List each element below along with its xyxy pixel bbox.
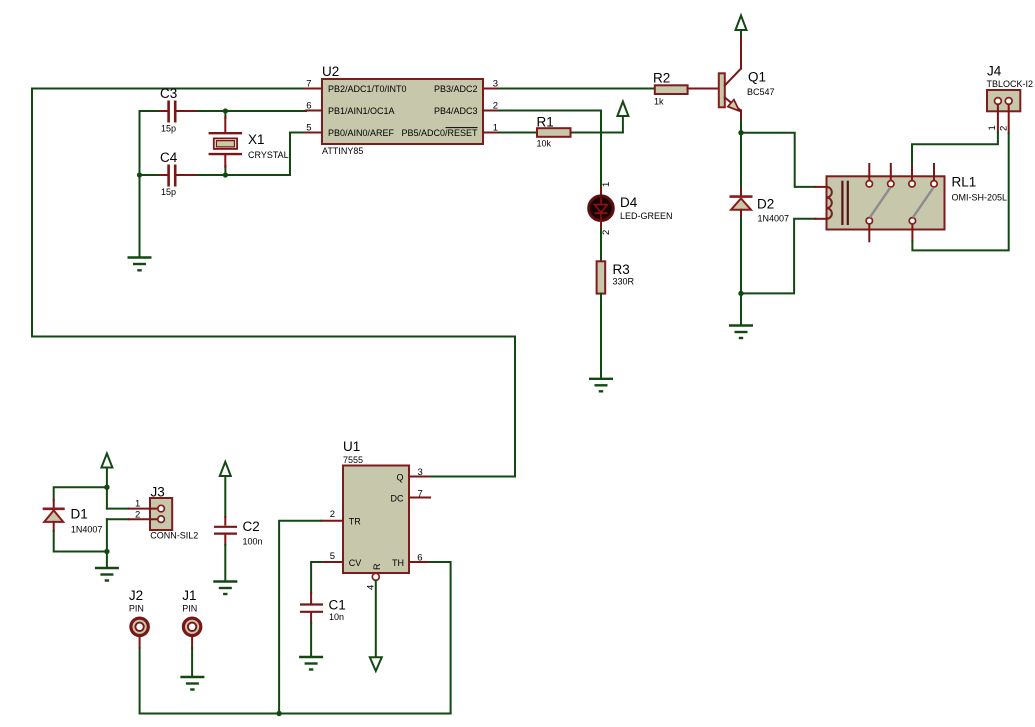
svg-text:PIN: PIN [129,603,144,613]
svg-text:PB5/ADC0/RESET: PB5/ADC0/RESET [401,128,478,138]
svg-text:5: 5 [330,551,335,562]
wire VCC top rail to U2 pin7 [32,89,515,477]
svg-text:LED-GREEN: LED-GREEN [620,211,673,221]
svg-text:PB1/AIN1/OC1A: PB1/AIN1/OC1A [328,106,395,116]
power arrow at J3/D1 [101,454,112,509]
wire C4 net [140,174,161,176]
svg-text:2: 2 [999,126,1010,131]
U2 pin 5 stub [306,132,322,134]
relay coil pin top [815,186,827,188]
svg-text:2: 2 [135,510,140,521]
relay coil pin bottom [815,218,827,220]
wire C3 right to U2 pin6 [195,110,306,112]
J1 pin stub [191,637,193,648]
wire junction to relay coil top [741,133,815,187]
svg-text:CV: CV [349,558,362,568]
svg-text:2: 2 [330,509,335,520]
wire D2 to bottom junction [740,218,742,293]
node D1 top junction [104,485,109,490]
relay top pin stubs [869,164,934,181]
wire J4 pin1 to relay contact [912,133,998,165]
svg-text:J4: J4 [987,63,1002,78]
relay core lines [842,181,847,225]
svg-text:7: 7 [306,79,311,90]
svg-text:C4: C4 [160,150,178,165]
svg-text:PB2/ADC1/T0/INT0: PB2/ADC1/T0/INT0 [328,84,407,94]
wire R pin to down arrow [375,580,377,657]
svg-text:3: 3 [418,467,423,478]
wire U2 pin3 to R2 [499,88,655,90]
svg-text:1N4007: 1N4007 [71,524,103,534]
svg-text:BC547: BC547 [747,87,775,97]
node bottom rail junction [276,711,281,716]
svg-text:10n: 10n [329,612,344,622]
wire junction down to D2 [740,133,742,189]
node Q1 emitter junction [738,130,743,135]
J4 pin 2 stub [1008,104,1010,133]
svg-text:C2: C2 [243,519,260,534]
relay bottom pin stubs [869,224,912,241]
svg-text:OMI-SH-205L: OMI-SH-205L [952,192,1008,202]
connector J3 CONN-SIL2 [150,498,172,530]
svg-text:R1: R1 [537,115,554,130]
wire LED to R3 [600,229,602,261]
svg-text:1: 1 [987,125,998,130]
svg-text:TBLOCK-I2: TBLOCK-I2 [987,79,1034,89]
ground J1 [180,677,204,690]
relay contact circles top [866,181,937,187]
svg-text:CRYSTAL: CRYSTAL [248,150,289,160]
U1 pin DC stub [409,497,430,499]
relay RL1 body [827,176,945,229]
svg-text:R: R [372,563,382,570]
wire TR to left vertical [279,521,321,714]
wire J1 to ground [191,648,193,677]
capacitor C2 [214,517,237,545]
svg-text:PB3/ADC2: PB3/ADC2 [434,84,478,94]
transistor Q1 BC547 [719,34,741,121]
relay switch blade 1 [870,187,891,217]
ground D2 [729,326,753,339]
node C4 left junction [137,172,142,177]
wire C3 left vertical [139,111,141,258]
crystal X1 [209,117,243,167]
bottom rail [140,648,451,714]
wire J4 pin2 to relay bottom contact [912,133,1008,250]
svg-text:D4: D4 [620,195,638,210]
svg-text:CONN-SIL2: CONN-SIL2 [150,531,198,541]
svg-text:Q1: Q1 [748,70,766,85]
wire CV to C1 [311,562,321,593]
svg-text:10k: 10k [537,139,552,149]
svg-text:PB4/ADC3: PB4/ADC3 [434,106,478,116]
svg-text:6: 6 [417,553,422,564]
svg-text:X1: X1 [248,132,265,147]
U2 pin 1 stub [483,132,499,134]
capacitor C4 [160,165,196,187]
wire crystal top [224,111,226,118]
U2 pin 7 stub [306,88,322,90]
node D1 bottom junction [104,549,109,554]
wire relay coil bottom loop [741,219,815,294]
svg-text:1: 1 [601,182,612,187]
svg-text:RL1: RL1 [952,175,977,190]
J4 pin 1 stub [997,104,999,132]
svg-text:6: 6 [306,101,311,112]
svg-text:7555: 7555 [343,455,363,465]
resistor R2 [655,85,688,94]
relay coil arcs [827,187,832,219]
J4 pin circles [995,98,1013,105]
svg-text:D2: D2 [757,197,774,212]
svg-text:TR: TR [349,517,361,527]
ground C3/C4 [128,258,152,271]
U1 pin TR stub [322,520,344,522]
U1 pin CV stub [322,561,344,563]
wire J3 pin2 vertical to ground [106,519,108,568]
wire U2 pin2 down to LED [499,111,601,189]
wire C2 to ground [224,545,226,582]
wire J3 pin1 [107,508,129,510]
U2 pin 3 stub [483,88,499,90]
svg-text:1k: 1k [654,97,664,107]
svg-text:J3: J3 [151,485,165,500]
wire D1 bottom [54,531,107,552]
diode D1 1N4007 [43,500,65,531]
svg-text:2: 2 [493,101,498,112]
wire R1 to power arrow [571,132,623,134]
U2 pin 6 stub [306,110,322,112]
svg-text:C1: C1 [329,598,346,613]
svg-text:ATTINY85: ATTINY85 [322,146,363,156]
svg-text:R3: R3 [613,262,630,277]
svg-text:1: 1 [493,123,498,134]
diode D2 1N4007 [730,189,753,218]
svg-text:1: 1 [135,499,140,510]
wire D2 junction to ground [740,293,742,325]
wire Q1 emitter to junction [740,121,742,133]
U1 R inversion bubble [372,573,379,580]
J3 pin 1 stub [129,508,158,510]
terminal block J4 [987,90,1020,111]
node crystal bottom junction [223,172,228,177]
wire J3 pin2 [107,518,129,520]
node D2 bottom junction [738,291,743,296]
U1 pin Q stub [409,476,430,478]
transistor Q1 base wire [688,88,719,90]
J3 pin circles [158,505,165,522]
ground J3 [95,568,119,581]
svg-text:PIN: PIN [182,603,197,613]
svg-text:3: 3 [493,79,498,90]
wire R3 to ground [600,294,602,379]
svg-text:U2: U2 [322,64,339,79]
svg-text:J2: J2 [129,588,143,603]
svg-text:100n: 100n [243,537,263,547]
svg-text:5: 5 [306,123,311,134]
U1 pin TH stub [409,561,430,563]
connector J1 PIN [183,618,200,635]
wire crystal bottom [224,166,226,175]
svg-text:TH: TH [392,558,404,568]
svg-text:C3: C3 [160,86,177,101]
svg-text:15p: 15p [161,123,176,133]
relay contact circles bottom [866,218,916,224]
svg-text:DC: DC [391,494,404,504]
capacitor C1 [300,593,323,623]
wire D1 top [54,487,107,500]
down arrow (negative supply) [370,657,382,671]
ground R3 [589,379,613,392]
LED D4 [589,196,614,221]
wire C3 net [140,110,161,112]
wire U2 pin1 to R1 [499,132,537,134]
resistor R1 [537,128,571,137]
wire C1 to ground [310,623,312,657]
capacitor C3 [160,101,196,123]
node crystal top junction [223,108,228,113]
LED D4 pin top [600,188,602,196]
svg-text:7: 7 [418,488,423,499]
svg-text:U1: U1 [343,439,360,454]
svg-text:R2: R2 [653,71,670,86]
svg-text:PB0/AIN0/AREF: PB0/AIN0/AREF [328,128,395,138]
wire C4 right to U2 pin5 [195,133,306,176]
wire TH to bottom rail [430,562,451,714]
svg-text:330R: 330R [613,276,635,286]
svg-text:15p: 15p [161,187,176,197]
power arrow at Q1 collector [736,16,747,36]
ground C1 [299,657,323,670]
op-amp U2 body ATTINY85 [322,79,483,144]
power arrow at C2 [220,462,231,517]
wire Q stub to vertical [430,476,515,478]
resistor R3 [597,261,606,293]
svg-text:D1: D1 [71,507,88,522]
connector J2 PIN [131,618,148,635]
J3 pin 2 stub [129,518,158,520]
svg-text:Q: Q [396,473,403,483]
svg-text:2: 2 [601,230,612,235]
U2 pin 2 stub [483,110,499,112]
relay switch blade 2 [913,187,934,217]
svg-text:1N4007: 1N4007 [758,214,790,224]
timer U1 7555 body [343,466,409,574]
power arrow at R1 [617,102,628,133]
ground C2 [213,582,237,595]
svg-text:J1: J1 [182,588,196,603]
LED D4 pin bottom [600,220,602,229]
J2 pin stub [139,637,141,648]
